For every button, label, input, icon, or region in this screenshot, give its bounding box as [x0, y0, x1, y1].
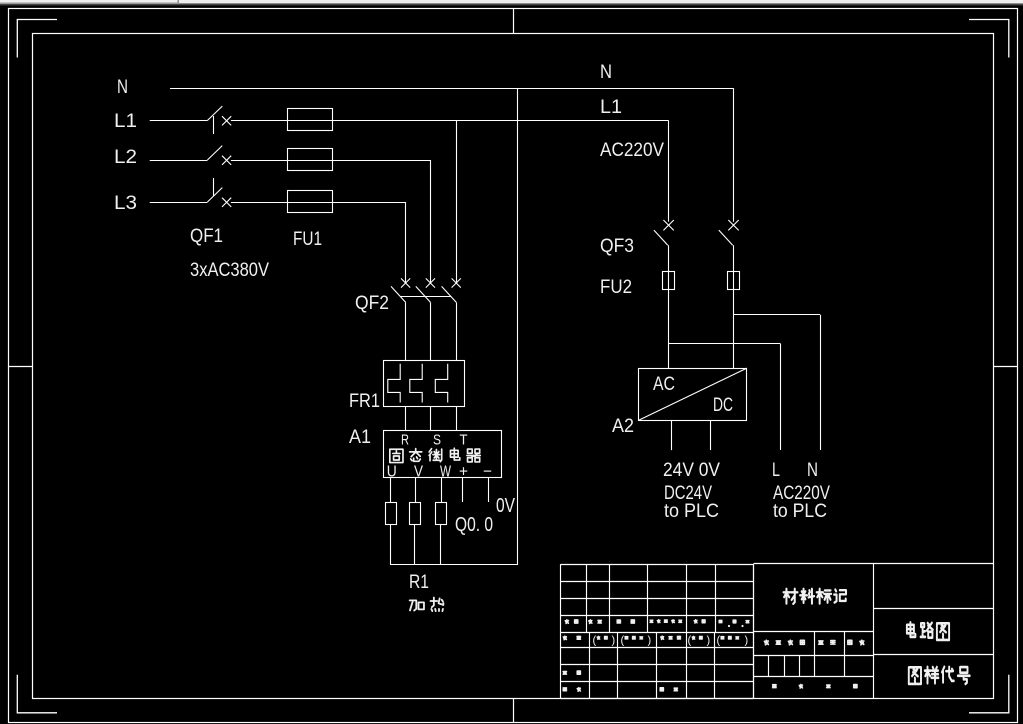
- svg-text:L2: L2: [114, 147, 137, 168]
- svg-text:U: U: [387, 464, 397, 481]
- breaker QF3: [600, 220, 739, 272]
- wire L1 in: [150, 120, 208, 122]
- value material mark label: [783, 589, 846, 604]
- node L1: [114, 111, 137, 132]
- wire L1 branch to QF2: [456, 121, 458, 284]
- node L1 right: [600, 97, 622, 118]
- svg-text:(: (: [717, 635, 721, 647]
- svg-text:A1: A1: [349, 427, 371, 448]
- thermal relay FR1: [349, 361, 465, 413]
- svg-text:L1: L1: [114, 111, 137, 132]
- node N right: [600, 62, 612, 83]
- wire L3 to QF2: [231, 202, 406, 283]
- node 24V 0V: [663, 460, 720, 481]
- wire A1 minus to 0V: [488, 478, 490, 502]
- wire A1 W to R1: [441, 478, 443, 503]
- svg-text:R: R: [401, 432, 409, 449]
- svg-text:0V: 0V: [496, 495, 516, 517]
- op-amp U1 solid state relay A1: [349, 427, 502, 481]
- power supply A2 AC-DC: [612, 368, 747, 437]
- value heating label: [410, 598, 444, 612]
- value 3xAC380V: [190, 260, 269, 281]
- svg-text:QF1: QF1: [190, 226, 223, 247]
- node 0V: [496, 495, 516, 517]
- wire A2 0V out: [710, 420, 712, 450]
- svg-text:R1: R1: [409, 572, 429, 593]
- wire A1 V to R1: [415, 478, 417, 503]
- svg-text:L3: L3: [114, 193, 137, 214]
- svg-text:A2: A2: [612, 416, 634, 437]
- wire FR1 to A1 T: [456, 407, 458, 431]
- title block small text: [563, 620, 864, 692]
- svg-text:QF3: QF3: [600, 236, 634, 257]
- value drawing code label: [909, 667, 970, 684]
- svg-text:L: L: [772, 460, 780, 481]
- svg-text:): ): [707, 635, 711, 647]
- svg-text:): ): [745, 635, 749, 647]
- svg-text:Q0. 0: Q0. 0: [455, 514, 493, 536]
- svg-text:QF2: QF2: [355, 293, 389, 314]
- svg-text:T: T: [460, 432, 468, 449]
- svg-text:FU2: FU2: [600, 277, 632, 298]
- wire FR1 to A1 R: [405, 407, 407, 431]
- wire N fused to A2: [733, 290, 735, 368]
- wire L3 in: [150, 202, 208, 204]
- value DC24V to PLC: [664, 483, 719, 522]
- svg-text:24V 0V: 24V 0V: [663, 460, 720, 481]
- svg-text:−: −: [483, 464, 492, 481]
- wire N bus: [170, 88, 734, 90]
- wire L1 to QF3: [231, 120, 669, 122]
- svg-text:FR1: FR1: [349, 391, 380, 412]
- node Q0.0: [455, 514, 493, 536]
- svg-text:N: N: [807, 460, 818, 481]
- wire heater star: [390, 564, 517, 566]
- svg-text:L1: L1: [600, 97, 622, 118]
- svg-text:N: N: [600, 62, 612, 83]
- wire branch to PLC L: [669, 344, 781, 451]
- svg-text:(: (: [621, 635, 625, 647]
- fuse FU1: [288, 109, 333, 251]
- node L terminal: [772, 460, 780, 481]
- fuse FU2: [600, 272, 740, 299]
- wire L1 drop: [668, 121, 670, 222]
- wire branch to PLC N: [734, 315, 821, 451]
- svg-text:(: (: [593, 635, 597, 647]
- svg-text:(: (: [688, 635, 692, 647]
- svg-text:DC: DC: [713, 395, 733, 416]
- wire A1 plus to Q0.0: [462, 478, 464, 502]
- value AC220V: [600, 140, 664, 161]
- node N terminal: [807, 460, 818, 481]
- svg-text:): ): [612, 635, 616, 647]
- node L2: [114, 147, 137, 168]
- svg-text:AC220V: AC220V: [600, 140, 664, 161]
- wire N drop: [733, 88, 735, 221]
- svg-text:): ): [648, 635, 652, 647]
- svg-text:S: S: [433, 432, 441, 449]
- wire L2 to QF2: [231, 160, 431, 283]
- wire N to heater star point: [517, 88, 519, 565]
- svg-text:FU1: FU1: [293, 229, 322, 250]
- title block: [561, 564, 994, 699]
- node L3: [114, 193, 137, 214]
- svg-text:3xAC380V: 3xAC380V: [190, 260, 269, 281]
- value AC220V to PLC: [773, 483, 830, 522]
- svg-text:AC: AC: [653, 374, 675, 395]
- breaker QF2: [355, 278, 461, 360]
- svg-text:to PLC: to PLC: [664, 501, 719, 522]
- wire A2 24V out: [671, 420, 673, 450]
- breaker QF1: [190, 106, 231, 247]
- svg-text:to PLC: to PLC: [773, 501, 827, 522]
- wire FR1 to A1 S: [430, 407, 432, 431]
- svg-text:+: +: [459, 464, 468, 481]
- value circuit diagram label: [907, 622, 949, 640]
- node N: [117, 77, 128, 98]
- wire L2 in: [150, 160, 208, 162]
- wire A1 U to R1: [390, 478, 392, 503]
- resistor R1: [386, 503, 447, 594]
- wire L1 fused to A2: [668, 290, 670, 368]
- svg-text:N: N: [117, 77, 128, 98]
